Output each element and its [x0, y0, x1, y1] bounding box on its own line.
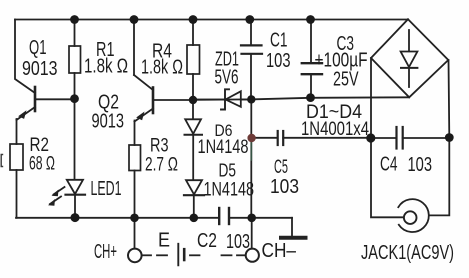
- wire x=251 column mid: [250, 100, 252, 139]
- svg-text:1.8k Ω: 1.8k Ω: [141, 57, 183, 79]
- svg-text:25V: 25V: [333, 69, 359, 91]
- resistor R4: [187, 20, 200, 101]
- transistor Q1: [17, 87, 75, 144]
- wire scan mark left edge: [1, 155, 3, 167]
- diode D6: [185, 100, 203, 180]
- wire bridge left AC drop: [370, 58, 372, 138]
- svg-text:D5: D5: [219, 161, 237, 181]
- capacitor C2: [219, 208, 229, 224]
- capacitor C3: [302, 20, 322, 98]
- svg-text:1N4148: 1N4148: [198, 137, 249, 158]
- svg-text:103: 103: [270, 176, 299, 198]
- wire jack right column: [429, 138, 449, 215]
- wire bottom rail left: [16, 217, 219, 219]
- wire left collector drop: [15, 20, 35, 94]
- svg-text:R3: R3: [150, 136, 169, 157]
- node C4 junctions: [366, 133, 454, 142]
- zener ZD1: [193, 89, 252, 109]
- resistor R3: [129, 145, 141, 218]
- node C5 junction (maroon): [247, 134, 255, 142]
- node bottom rail junctions: [71, 213, 257, 222]
- svg-text:E: E: [158, 230, 170, 252]
- battery E: [142, 244, 245, 265]
- wire x=251 column low: [250, 141, 252, 218]
- svg-text:C1: C1: [270, 30, 288, 52]
- svg-text:68 Ω: 68 Ω: [29, 154, 55, 175]
- wire R1 junction to LED1: [74, 99, 76, 179]
- ground: [281, 218, 306, 238]
- diode D5: [184, 180, 204, 218]
- svg-text:1N4001x4: 1N4001x4: [301, 119, 369, 140]
- svg-text:CH–: CH–: [262, 240, 297, 262]
- svg-text:C4: C4: [380, 154, 398, 176]
- wire x=134 column top: [133, 20, 135, 76]
- terminal CH+: [128, 249, 142, 263]
- svg-text:9013: 9013: [22, 58, 58, 80]
- LED LED1: [48, 180, 85, 218]
- resistor R1: [69, 20, 81, 100]
- node mid junctions: [70, 93, 315, 104]
- svg-text:5V6: 5V6: [215, 67, 239, 89]
- svg-text:103: 103: [226, 231, 250, 253]
- connector JACK1: [398, 199, 429, 232]
- wire green tinted segment below C5 node: [250, 138, 252, 160]
- svg-text:Q1: Q1: [29, 37, 47, 59]
- svg-text:1.8k Ω: 1.8k Ω: [84, 56, 128, 78]
- wire top rail: [15, 19, 408, 21]
- svg-text:C5: C5: [274, 157, 288, 178]
- svg-text:LED1: LED1: [91, 178, 122, 200]
- svg-text:9013: 9013: [92, 111, 125, 133]
- transistor Q2: [134, 75, 193, 145]
- wire bottom rail right: [229, 217, 292, 219]
- wire mid horizontal rail y~99: [193, 97, 409, 100]
- svg-text:1N4148: 1N4148: [204, 180, 255, 201]
- wire CH+ drop: [134, 218, 136, 249]
- svg-text:CH+: CH+: [94, 241, 117, 263]
- capacitor C5: [251, 131, 371, 145]
- svg-text:C2: C2: [197, 230, 217, 252]
- wire CH- drop: [251, 218, 253, 249]
- wire jack left column: [371, 138, 404, 217]
- svg-text:2.7 Ω: 2.7 Ω: [145, 155, 178, 176]
- bridge rectifier D1~D4: [371, 19, 448, 97]
- terminal CH-: [246, 249, 259, 262]
- resistor R2: [10, 144, 23, 218]
- node top rail junctions: [70, 15, 315, 24]
- svg-text:103: 103: [266, 50, 291, 72]
- svg-text:JACK1(AC9V): JACK1(AC9V): [361, 242, 454, 264]
- svg-text:103: 103: [408, 154, 433, 176]
- capacitor C4: [371, 127, 449, 149]
- capacitor C1: [241, 20, 262, 100]
- wire bridge right AC drop: [448, 60, 451, 138]
